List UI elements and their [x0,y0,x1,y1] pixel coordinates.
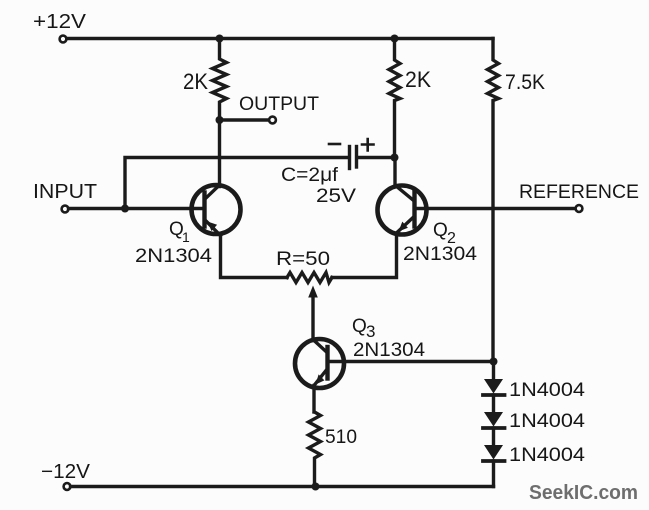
diode D1 1N4004 [483,379,505,395]
svg-text:INPUT: INPUT [33,181,97,203]
wire bottom rail [71,485,494,488]
svg-text:SeekIC.com: SeekIC.com [529,482,638,504]
svg-text:+12V: +12V [33,11,87,33]
svg-text:3: 3 [366,322,375,341]
svg-text:C=2μf: C=2μf [281,165,339,186]
node top-mid junction [391,35,399,43]
resistor R2 2K (right) [389,39,400,158]
svg-text:510: 510 [325,427,357,448]
wire output stub [220,118,270,121]
polarity minus [329,143,340,146]
svg-text:2K: 2K [405,67,431,92]
-12V supply terminal [64,483,71,490]
+12V supply terminal [60,36,67,43]
node OUTPUT junction [216,116,224,124]
wire node to diode D1 [492,362,495,380]
wire input lead [69,207,126,210]
svg-text:REFERENCE: REFERENCE [519,182,639,203]
svg-text:2N1304: 2N1304 [403,244,477,265]
diode D2 1N4004 [483,412,505,428]
wire Q1 collector [218,120,221,187]
wire D3 to bottom rail [492,461,495,487]
svg-text:2N1304: 2N1304 [135,246,212,267]
wire Q1 emitter down [221,235,288,278]
svg-text:1N4004: 1N4004 [509,411,585,432]
capacitor C 2uF right plate [355,147,358,168]
svg-text:2N1304: 2N1304 [353,340,425,361]
wire capacitor to node [358,156,395,159]
OUTPUT terminal [269,117,276,124]
svg-text:R=50: R=50 [276,249,330,270]
wire Q3 base to diode node [330,360,493,363]
node top-left junction [216,35,224,43]
wire Q2 base to REFERENCE [417,207,576,210]
svg-text:1: 1 [182,229,190,245]
svg-text:2K: 2K [183,69,208,94]
wire Q3 emitter down [312,386,315,413]
wire D1 to D2 [492,395,495,413]
svg-text:OUTPUT: OUTPUT [239,94,319,115]
node input junction [121,205,129,213]
svg-text:Q: Q [433,220,448,241]
diode D3 1N4004 [483,445,505,461]
capacitor C 2uF left plate [348,147,351,169]
svg-text:−12V: −12V [41,461,91,483]
wire Q2 collector [393,158,396,187]
svg-text:25V: 25V [316,186,356,207]
svg-text:1N4004: 1N4004 [509,380,585,401]
wire Q1 base lead [125,207,203,210]
resistor R=50 potentiometer body [287,273,332,283]
REFERENCE terminal [576,205,583,212]
potentiometer wiper arrow [311,296,314,341]
node diode string junction [490,358,498,366]
wire D2 to D3 [492,428,495,446]
transistor Q3 [295,339,344,388]
wire top rail [67,37,493,40]
svg-text:7.5K: 7.5K [505,71,545,94]
svg-text:Q: Q [352,316,367,337]
node bottom rail junction [312,483,320,491]
resistor R5 510 [309,412,321,487]
resistor R1 2K (left) [213,39,227,121]
polarity plus [362,139,374,151]
INPUT terminal [62,206,69,213]
transistor Q1 [192,185,241,236]
wire Q2 emitter down [332,234,397,278]
transistor Q2 [378,186,427,235]
node capacitor junction [391,154,399,162]
resistor R3 7.5K [488,39,499,362]
wire input to capacitor [125,158,348,209]
svg-text:1N4004: 1N4004 [509,445,585,466]
